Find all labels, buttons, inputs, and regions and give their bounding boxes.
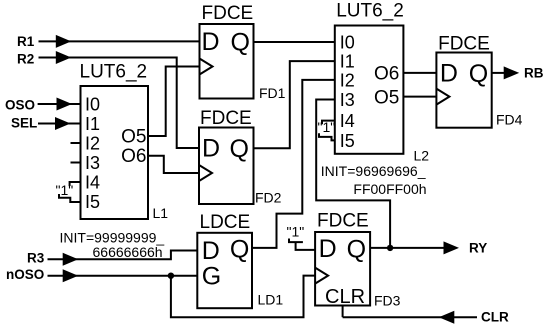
svg-text:L2: L2 (414, 148, 430, 164)
svg-text:nOSO: nOSO (6, 267, 44, 282)
wire FD4.Q to RB (492, 72, 504, 74)
arrowhead R1 (56, 35, 71, 48)
svg-text:I4: I4 (85, 173, 100, 193)
svg-text:I5: I5 (340, 131, 355, 151)
LUT6_2 L1 box (81, 86, 149, 219)
svg-text:FD1: FD1 (259, 85, 286, 101)
junction dot nOSO (168, 273, 174, 279)
wire FD2.Q to L2.I1 (254, 61, 335, 148)
svg-text:LUT6_2: LUT6_2 (80, 62, 148, 83)
svg-text:FF00FF00h: FF00FF00h (353, 181, 426, 197)
svg-text:L1: L1 (153, 205, 169, 221)
clock triangle FD2 (199, 165, 212, 181)
wire "1" to FD3.D (289, 239, 303, 243)
wire L1.O5 to FD1 clock (148, 67, 200, 137)
wire "1" to L2.I4 (322, 121, 335, 125)
svg-text:FD3: FD3 (374, 293, 401, 309)
svg-text:RB: RB (524, 66, 544, 81)
svg-text:LUT6_2: LUT6_2 (336, 1, 404, 22)
wire L1.O6 to FD2 clock (148, 156, 199, 173)
svg-text:I1: I1 (85, 114, 100, 134)
svg-text:I1: I1 (340, 52, 355, 72)
svg-text:CLR: CLR (481, 310, 509, 325)
svg-text:R3: R3 (27, 251, 45, 266)
FDCE FD4 box (436, 53, 491, 128)
wire R1 to FD1.D (39, 40, 200, 42)
arrowhead SEL (55, 117, 71, 130)
clock triangle FD1 (200, 59, 213, 75)
svg-text:I0: I0 (85, 95, 100, 115)
FDCE FD1 box (200, 24, 254, 99)
svg-text:"1": "1" (287, 224, 305, 240)
svg-text:I2: I2 (85, 134, 100, 154)
svg-text:O6: O6 (374, 64, 399, 85)
svg-text:SEL: SEL (11, 116, 37, 131)
svg-text:O6: O6 (121, 146, 146, 167)
svg-text:Q: Q (230, 135, 249, 163)
arrowhead nOSO (63, 269, 78, 282)
svg-text:FDCE: FDCE (438, 34, 490, 55)
svg-text:OSO: OSO (5, 98, 35, 113)
stub L1.I2 unconnected (71, 142, 81, 144)
clock triangle FD4 (436, 89, 449, 105)
svg-text:I2: I2 (340, 71, 355, 91)
wire R3 to LD1.D (48, 251, 198, 260)
wire FD3.CLR pin down (342, 306, 344, 318)
svg-text:RY: RY (469, 241, 487, 256)
svg-text:R2: R2 (17, 52, 34, 67)
svg-text:LD1: LD1 (258, 292, 284, 308)
wire SEL to L1.I1 (38, 123, 81, 125)
svg-text:D: D (202, 237, 220, 265)
FDCE FD2 box (199, 128, 254, 205)
arrowhead R3 (63, 253, 78, 266)
svg-text:I4: I4 (340, 111, 355, 131)
LDCE LD1 box (197, 233, 252, 308)
svg-text:FDCE: FDCE (200, 108, 252, 129)
arrowhead CLR (439, 311, 455, 324)
wire CLR input (343, 316, 477, 318)
wire "1" to L2.I5 (319, 133, 335, 140)
wire L2.O6 to FD4.D (403, 72, 436, 74)
wire OSO to L1.I0 (38, 103, 81, 105)
svg-text:Q: Q (469, 60, 488, 88)
wire "1" to L1.I5 (59, 194, 81, 202)
svg-text:FD2: FD2 (255, 190, 282, 206)
svg-text:Q: Q (347, 236, 366, 264)
junction dot FD3.Q (387, 245, 393, 251)
svg-text:R1: R1 (17, 34, 35, 49)
svg-text:D: D (202, 28, 220, 56)
svg-text:I5: I5 (85, 192, 100, 212)
svg-text:O5: O5 (121, 127, 146, 148)
svg-text:I3: I3 (85, 153, 100, 173)
wire nOSO to LD1.G (48, 275, 198, 277)
svg-text:D: D (319, 235, 337, 263)
wire FD3.Q to RY (370, 247, 444, 249)
wire "1" drop into FD3.D (296, 242, 316, 250)
stub L1.I3 unconnected (71, 162, 81, 164)
wire "1" to L1.I4 (70, 182, 81, 186)
clock triangle FD3 (315, 268, 328, 284)
svg-text:FDCE: FDCE (317, 211, 369, 232)
svg-text:FDCE: FDCE (202, 3, 254, 24)
wire L2.O5 to FD4 clock (403, 96, 436, 98)
wire LD1.Q to L2.I2 (252, 80, 335, 248)
svg-text:FD4: FD4 (496, 112, 523, 128)
svg-text:G: G (202, 263, 221, 291)
svg-text:D: D (440, 60, 458, 88)
LUT6_2 L2 box (335, 26, 404, 154)
svg-text:Q: Q (231, 29, 250, 57)
svg-text:I0: I0 (340, 33, 355, 53)
svg-text:O5: O5 (374, 87, 399, 108)
arrowhead OSO (57, 98, 73, 111)
svg-text:66666666h: 66666666h (93, 244, 163, 260)
svg-text:CLR: CLR (325, 286, 365, 308)
wire nOSO down to bottom route (171, 276, 315, 318)
FDCE FD3 box (315, 232, 370, 306)
svg-text:INIT=96969696_: INIT=96969696_ (321, 163, 426, 179)
arrowhead R2 (56, 51, 71, 64)
wire FD3.Q up to L2.I3 (316, 100, 390, 248)
wire FD1.Q to L2.I0 (254, 41, 335, 43)
svg-text:Q: Q (230, 236, 249, 264)
svg-text:LDCE: LDCE (200, 212, 251, 233)
svg-text:I3: I3 (340, 90, 355, 110)
arrowhead RB (504, 66, 520, 79)
wire R2 to FD2.D (39, 58, 200, 149)
arrowhead RY (444, 241, 460, 254)
svg-text:D: D (202, 135, 220, 163)
